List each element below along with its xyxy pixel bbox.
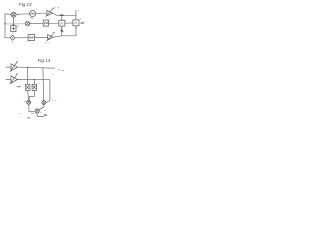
label blob bottom left [28, 117, 30, 119]
block G1 [43, 20, 48, 26]
svg-text:Fig 14: Fig 14 [38, 58, 51, 63]
label 52 dash left of M1 [24, 101, 26, 103]
wire block A bottom [61, 26, 63, 36]
label 52 bottom tick [19, 112, 21, 115]
variable amp T13 [46, 8, 54, 17]
label 42 ticks below T14 [45, 42, 50, 45]
wire G2 to amp T14 [34, 36, 47, 38]
variable amp T14 [47, 32, 55, 41]
label 46 ticks right of X3 [40, 111, 46, 113]
stub above D2 [12, 32, 14, 36]
wire rail2 down V2 [46, 80, 50, 103]
wire block B output dash [81, 22, 84, 24]
wire T14 to junction [53, 36, 62, 37]
wire amp to top rail [53, 13, 76, 15]
wire rail1 down V1 [42, 68, 45, 101]
label below C2 [30, 17, 33, 19]
arrow into D1 top [13, 25, 14, 26]
oscillator C2 [29, 11, 35, 17]
junction blob at block A drop [61, 14, 63, 16]
label ticks near M2 [46, 100, 56, 103]
wire A1 down to D1 [12, 17, 14, 26]
mixer diamond D2 [10, 35, 15, 40]
wire M0 to G1 [29, 22, 43, 24]
wire rail1 down to block P [27, 67, 29, 84]
label dash left below X3 [31, 112, 34, 114]
block Q [32, 84, 37, 90]
variable amp T1 [10, 61, 18, 72]
wire adder to C2 [16, 13, 29, 16]
labels u u right of rail1 [58, 70, 63, 71]
wire Q bottom L to M1 [29, 90, 34, 100]
label tick above right of G1 [49, 18, 50, 21]
label tick above right of Q [39, 82, 40, 85]
label 9 tick below D2 [12, 41, 14, 44]
wire D2 to G2 [15, 37, 28, 39]
arrow into B bottom [75, 26, 76, 28]
wire M1 down and right to X3 [29, 104, 35, 112]
input wire amp T2 [6, 78, 11, 80]
wire X3 output down right [37, 113, 44, 116]
wire drop into block A [61, 15, 63, 20]
label 8 tick right of D1 [17, 26, 19, 29]
tick below rail1 right end [52, 74, 54, 77]
wire rail2 down to block Q [33, 80, 35, 85]
arrow into A bottom [61, 27, 62, 29]
adder X3 [35, 109, 39, 113]
wire C2 to amp [36, 12, 47, 14]
label 17 tick [55, 6, 56, 9]
block B inner mark [74, 22, 77, 24]
junction blob below A [61, 30, 63, 31]
terminal stub above block B [75, 10, 77, 15]
wire P bottom to M1 [28, 90, 29, 100]
arrow into A top [61, 19, 62, 22]
junction dot rail2 at Q [34, 79, 35, 80]
wire block A to block B [65, 22, 73, 24]
junction dot rail1 at P [27, 67, 28, 68]
label 5 tick under wire [17, 25, 18, 28]
multiplier M0 [25, 21, 30, 26]
wire M2 down to X3 [39, 105, 44, 110]
block A inner mark [60, 22, 63, 24]
label tick below left of G2 [26, 40, 28, 43]
block A [59, 20, 65, 26]
input wire amp T1 [6, 66, 11, 68]
block P [25, 84, 30, 90]
node 1 label tick [9, 8, 10, 11]
mixer M1 [27, 100, 31, 104]
rail 1 from T1 [18, 66, 55, 69]
arrowhead junction on left rail [4, 23, 6, 25]
block G2 [28, 35, 34, 41]
label 51 arrow into P [17, 86, 21, 87]
label 13 tick [19, 78, 21, 81]
wire rail corner to diamond [5, 37, 10, 39]
mixer M2 [42, 101, 46, 105]
label 20 tick [80, 17, 81, 20]
label 6 tick [77, 9, 78, 12]
label 10 tick [31, 17, 33, 20]
wire rail to adder [5, 13, 11, 16]
svg-text:Fig 13: Fig 13 [19, 2, 32, 7]
wire rail junction to M0 [5, 23, 25, 25]
block D1 [11, 26, 16, 32]
label 18 [58, 6, 60, 9]
variable amp T2 [10, 74, 18, 85]
block B [73, 20, 79, 26]
arrowhead on wire [18, 14, 20, 15]
wire lower rail to block B bottom [62, 26, 76, 36]
wire feedback rail left [4, 14, 6, 38]
adder A1 [11, 12, 16, 17]
output arrow dash [44, 114, 46, 116]
wire drop into block B [75, 15, 77, 20]
wire G1 to block A [48, 22, 58, 24]
rail 2 from T2 [18, 79, 50, 81]
label 2 tick above C2 [36, 8, 37, 11]
